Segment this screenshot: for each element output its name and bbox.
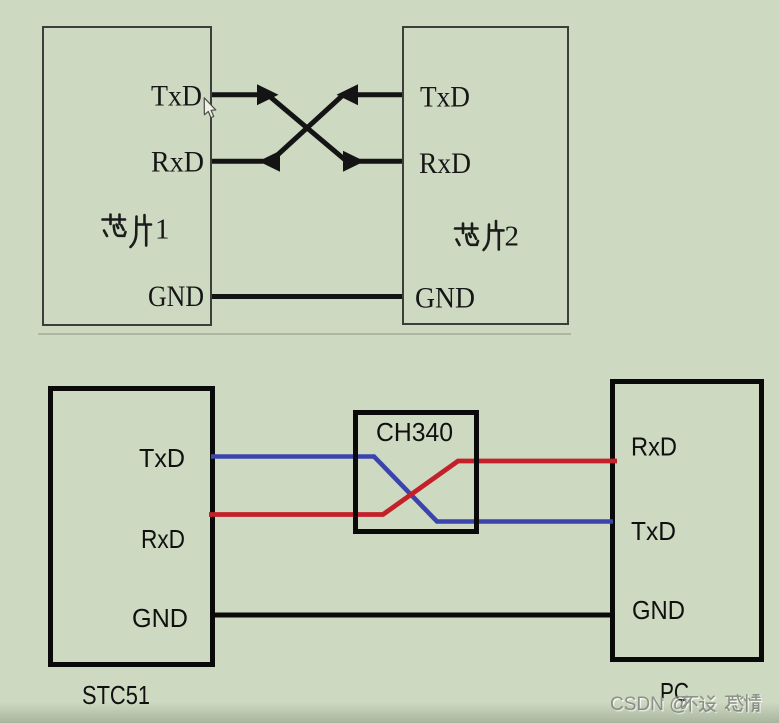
svg-text:GND: GND xyxy=(632,595,685,625)
svg-text:RxD: RxD xyxy=(151,146,204,179)
svg-text:GND: GND xyxy=(415,282,475,315)
svg-text:TxD: TxD xyxy=(420,81,470,114)
svg-text:TxD: TxD xyxy=(139,443,185,473)
svg-text:GND: GND xyxy=(132,603,188,633)
svg-text:RxD: RxD xyxy=(631,432,677,462)
svg-text:CH340: CH340 xyxy=(376,417,453,447)
svg-text:RxD: RxD xyxy=(419,147,471,180)
svg-text:TxD: TxD xyxy=(151,80,202,113)
svg-text:TxD: TxD xyxy=(631,516,676,546)
svg-text:1: 1 xyxy=(155,214,170,246)
svg-text:RxD: RxD xyxy=(141,524,185,554)
svg-text:GND: GND xyxy=(148,280,204,313)
svg-text:2: 2 xyxy=(505,221,520,253)
